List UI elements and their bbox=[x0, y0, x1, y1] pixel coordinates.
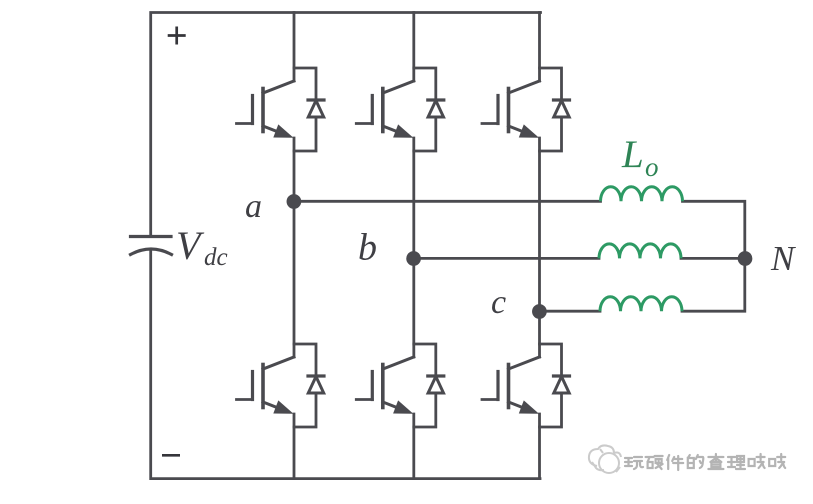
svg-text:c: c bbox=[491, 284, 506, 321]
svg-text:N: N bbox=[770, 239, 796, 278]
svg-text:dc: dc bbox=[204, 244, 228, 271]
svg-text:a: a bbox=[245, 188, 262, 225]
svg-text:o: o bbox=[645, 152, 659, 182]
svg-text:L: L bbox=[621, 133, 644, 176]
svg-text:b: b bbox=[358, 227, 377, 269]
